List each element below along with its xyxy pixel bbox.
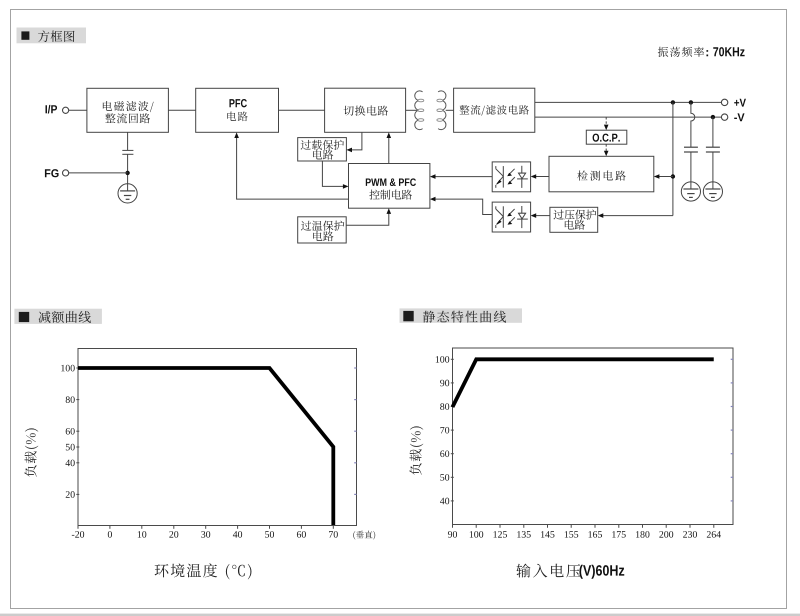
wire: switching circuit to OLP (arrow left) <box>346 132 362 152</box>
box U4: rectifier/filter circuit 整流/滤波电路 <box>454 88 535 132</box>
wire: PWM to PFC feedback (arrow up into PFC) <box>234 132 348 199</box>
chart 2 x-axis ticks and labels <box>448 525 721 538</box>
wire: OTP to PWM bottom (arrow up) <box>346 208 391 225</box>
node: junction sense line / detection input <box>671 174 675 178</box>
wire: -V to cap C3 <box>712 117 714 147</box>
wire: -V rail <box>535 116 722 118</box>
box U7: over-voltage protection 过压保护电路 <box>550 207 598 232</box>
wire: FG terminal to junction <box>69 172 128 174</box>
transformer T1 <box>415 91 446 130</box>
chart 1 plot frame <box>78 349 357 526</box>
wire: detection to optocoupler PC1 (arrow left) <box>531 174 549 179</box>
wire: sense to detection circuit (arrow left) <box>654 174 673 179</box>
wire: box1 bottom stem <box>127 132 129 150</box>
chart 1 note (vertical) <box>353 531 375 540</box>
chart 1 right edge ticks <box>354 368 356 494</box>
terminal FG <box>45 169 69 177</box>
section header 静态特性曲线 (static characteristic curve) <box>400 308 523 322</box>
wire: +V to cap C2 with hop over -V rail <box>691 102 695 147</box>
wire: sense line from +V rail down to OVP <box>672 102 674 215</box>
chart 2 x-axis title 输入电压(V)60Hz <box>516 564 624 579</box>
wire: C2 to earth <box>690 152 692 189</box>
chart 2 y-axis ticks and labels <box>436 356 454 504</box>
chart 1 y-axis ticks and labels <box>61 365 79 498</box>
terminal -V <box>721 113 744 121</box>
wire: box1 to PFC <box>168 109 195 111</box>
optocoupler PC2 <box>492 202 530 232</box>
terminal +V <box>721 99 746 107</box>
wire: C1 to FG node and ground <box>127 154 129 191</box>
terminal I/P <box>45 105 68 114</box>
wire: PFC to switching circuit <box>279 109 325 111</box>
box U8: PWM &amp; PFC control circuit <box>349 164 430 209</box>
box U6: detection circuit 检测电路 <box>549 156 654 192</box>
wire: switching circuit to transformer primary <box>406 109 417 111</box>
note: oscillator frequency 70KHz <box>658 47 745 57</box>
wire: sense line to OVP box (arrow left) <box>598 213 673 218</box>
chart 2 right edge ticks <box>731 359 733 501</box>
box U10: over-temperature protection 过温保护电路 <box>298 217 347 243</box>
chart 1 y-axis title 负载(%) <box>24 428 38 476</box>
wire: PWM to switching circuit (arrow up) <box>387 132 392 163</box>
chart 1 derating curve <box>78 368 333 525</box>
wire: O.C.P. to detection circuit (dashed, arrow down) <box>604 144 609 156</box>
chart 2 plot frame <box>453 348 734 525</box>
section header 方框图 (block diagram) <box>17 28 87 44</box>
ground: earth for C3 <box>703 182 722 201</box>
box U1: EMI filter / rectifier circuit 电磁滤波/整流回路 <box>87 88 168 132</box>
box U3: switching circuit 切换电路 <box>325 88 406 132</box>
wire: C3 to earth <box>712 152 714 189</box>
capacitor C1 (Y-cap to FG) <box>122 150 133 154</box>
wire: OLP to PWM controller (arrow right) <box>322 161 348 189</box>
wire: PC1 to PWM controller (arrow left) <box>430 174 492 179</box>
ground: FG earth symbol <box>118 184 137 203</box>
capacitor C2 <box>684 147 698 152</box>
box U9: overload protection 过载保护电路 <box>298 138 347 161</box>
node: junction +V rail / cap C2 <box>689 100 693 104</box>
node: junction +V rail / sense line <box>671 100 675 104</box>
node: junction -V rail / cap C3 <box>711 115 715 119</box>
wire: OVP to optocoupler PC2 (arrow left) <box>531 213 550 218</box>
chart 1 x-axis ticks and labels <box>72 526 338 538</box>
node: FG junction <box>125 171 129 175</box>
optocoupler PC1 <box>492 162 530 192</box>
chart 2 y-axis title 负载(%) <box>409 426 423 474</box>
ground: earth for C2 <box>681 182 700 201</box>
chart 1 x-axis title 环境温度(℃) <box>155 563 252 579</box>
wire: I/P to EMI filter box <box>69 109 87 111</box>
wire: +V rail <box>535 101 722 103</box>
wire: transformer secondary to rectifier/filter box <box>446 109 454 111</box>
wire: PC2 to PWM controller (jog, arrow left) <box>430 197 492 215</box>
capacitor C3 <box>706 147 720 152</box>
box U5: O.C.P. <box>586 130 627 144</box>
box U2: PFC circuit PFC电路 <box>196 88 279 132</box>
chart 2 characteristic curve <box>453 359 714 407</box>
section header 减额曲线 (derating curve) <box>14 309 102 324</box>
wire: -V rail to O.C.P. (dashed, arrow down) <box>604 117 609 130</box>
